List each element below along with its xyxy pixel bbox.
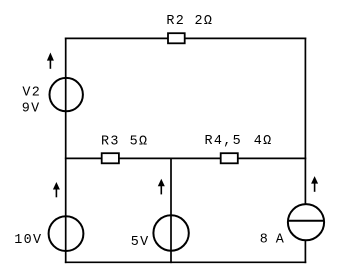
voltage source 10V	[49, 216, 84, 251]
wire middle net	[66, 157, 306, 159]
arrow for 8A	[311, 176, 318, 192]
svg-text:5Ω: 5Ω	[130, 135, 149, 150]
resistor R4,5	[221, 153, 238, 163]
svg-text:8: 8	[260, 233, 269, 248]
wire bottom net	[66, 261, 306, 263]
svg-text:9V: 9V	[22, 102, 41, 117]
voltage source 5V	[153, 215, 188, 250]
resistor R2	[168, 33, 185, 43]
svg-text:A: A	[276, 233, 285, 248]
svg-text:R3: R3	[101, 135, 120, 150]
arrow for 10V	[53, 182, 60, 197]
svg-text:R2 2Ω: R2 2Ω	[166, 14, 213, 29]
wire right branch lower	[304, 241, 306, 262]
arrow for V2	[47, 53, 54, 69]
svg-text:5V: 5V	[131, 235, 150, 250]
arrow for 5V	[158, 179, 165, 195]
wire left branch	[65, 38, 67, 262]
svg-text:4Ω: 4Ω	[254, 134, 273, 149]
resistor R3	[102, 153, 119, 163]
svg-text:V2: V2	[22, 85, 41, 100]
wire right branch upper	[304, 38, 306, 203]
svg-text:R4,5: R4,5	[205, 134, 243, 149]
svg-text:10V: 10V	[14, 233, 42, 248]
wire top net	[66, 37, 306, 39]
voltage source V2	[49, 78, 82, 111]
wire middle vertical branch	[170, 158, 172, 262]
current source 8A	[288, 204, 324, 240]
